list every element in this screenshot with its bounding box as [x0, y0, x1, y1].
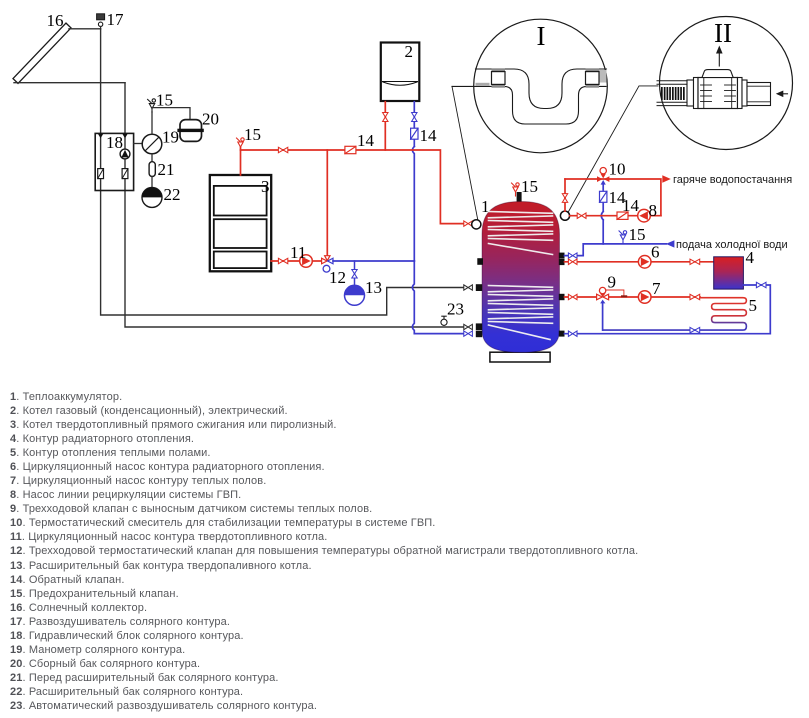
svg-text:17: 17 — [107, 10, 125, 29]
wire blue down along x414 with hops — [412, 261, 463, 334]
mixer up arrow — [716, 46, 723, 67]
svg-text:II: II — [714, 18, 732, 48]
union nut left — [492, 68, 506, 87]
radiator 4 — [714, 257, 744, 289]
wire solar hot down pipe — [101, 29, 464, 315]
tank left solar supply stub — [476, 284, 482, 291]
mixer right nut — [742, 80, 747, 106]
pre expansion vessel 21 — [149, 162, 155, 177]
valve on tank13 stem — [352, 270, 357, 279]
wire red main to tank — [241, 150, 464, 224]
gas boiler 2 — [381, 43, 420, 102]
tank left blue stub — [476, 331, 482, 338]
mixer body cap — [702, 70, 733, 78]
wire hot riser from tank right port — [564, 179, 566, 211]
wire manometer down — [151, 154, 153, 162]
heat-trap pipe inner wall — [476, 69, 607, 109]
air vent 17 — [97, 14, 105, 29]
svg-text:18: 18 — [106, 133, 123, 152]
wire valve9 down to floor return — [602, 303, 604, 330]
svg-text:16: 16 — [47, 11, 64, 30]
svg-text:14: 14 — [420, 126, 438, 145]
svg-text:8: 8 — [649, 201, 658, 220]
buffer tank base — [490, 352, 550, 362]
mixer right pipe — [747, 83, 771, 106]
wire vessel to expansion tank — [151, 177, 153, 188]
tank lower coil — [489, 286, 553, 340]
wire collector bottom to return riser — [14, 82, 125, 84]
svg-text:13: 13 — [365, 278, 382, 297]
hydraulic block 18 — [95, 133, 133, 190]
svg-text:6: 6 — [651, 243, 660, 262]
wire hot supply line — [565, 179, 661, 216]
svg-text:15: 15 — [629, 225, 646, 244]
wire recirculation line — [570, 215, 661, 217]
valve 9 sensor capillary — [606, 290, 624, 296]
tank right heating supply stub — [559, 259, 565, 265]
thermostatic mixer 10 — [597, 168, 609, 185]
solar expansion tank 22 — [142, 187, 162, 207]
block inlet tick left — [98, 134, 103, 138]
floor heating serpentine 5 — [603, 298, 746, 330]
tank right port circle — [560, 211, 569, 220]
svg-text:15: 15 — [156, 91, 173, 110]
wire boiler3 riser — [240, 147, 242, 175]
detail circle II (thermostatic mixer section) — [660, 17, 793, 150]
leader line from detail II to tank right port — [568, 86, 658, 213]
wire radiator return — [565, 285, 771, 334]
valve on recirculation line — [577, 213, 586, 218]
hot supply arrowhead — [662, 175, 671, 182]
wire blue boiler loop return — [333, 260, 414, 262]
valve at tank blue bottom-left port — [464, 331, 473, 336]
wire safety valve to collecting tank — [152, 108, 190, 119]
svg-text:3: 3 — [261, 177, 270, 196]
mixer body internal hatch — [701, 78, 736, 109]
valve at tank return port — [568, 331, 577, 336]
wire boiler2 return crossing hop and down — [412, 146, 414, 261]
wire manometer up — [151, 112, 153, 134]
valve on floor return — [690, 327, 700, 332]
valve on boiler2 return — [412, 113, 417, 122]
svg-text:5: 5 — [749, 296, 758, 315]
valve on floor supply — [690, 294, 700, 299]
svg-text:21: 21 — [158, 160, 175, 179]
three-way valve 12 — [322, 256, 333, 272]
collecting tank 20 — [177, 120, 203, 142]
mixer union nut — [687, 80, 694, 106]
wire boiler2 return (blue) upper — [413, 102, 415, 147]
wire boiler3 bottom to pump 11 — [271, 260, 299, 262]
mixer thread hatching — [661, 87, 685, 100]
mixer body — [698, 78, 738, 109]
safety valve 15 (solar) — [148, 99, 156, 112]
safety valve 15 (cold line) — [619, 231, 627, 244]
svg-text:4: 4 — [746, 248, 755, 267]
tank top stub — [517, 192, 522, 202]
svg-text:7: 7 — [652, 279, 661, 298]
tank right cold stub — [559, 253, 565, 259]
valve on boiler2 supply — [383, 113, 388, 122]
valve on radiator return — [756, 282, 766, 287]
safety valve 15 (boiler3) — [237, 138, 245, 151]
tank upper coil — [489, 212, 553, 255]
check valve 14 below mixer — [600, 191, 607, 202]
valve on hot riser — [562, 194, 567, 203]
wire cold water supply — [565, 244, 667, 256]
floor pump 7 — [638, 291, 651, 304]
svg-text:1: 1 — [481, 197, 490, 216]
check valve 14 on red main — [345, 146, 356, 153]
svg-text:15: 15 — [521, 177, 538, 196]
valve at tank solar supply port — [464, 285, 473, 290]
valve on radiator supply — [690, 259, 700, 264]
check valve 14 on recirculation — [617, 212, 628, 219]
wire boiler2 supply (red) — [384, 102, 386, 150]
solid fuel boiler 3 — [210, 175, 271, 271]
valve on pump11 line — [278, 258, 287, 263]
svg-text:19: 19 — [162, 128, 179, 147]
heat-trap pipe outer wall — [452, 86, 606, 124]
svg-text:23: 23 — [447, 300, 464, 319]
mixer inflow arrow — [776, 91, 788, 98]
tank left stub (unused) — [477, 258, 483, 265]
wire radiator supply — [565, 261, 714, 263]
svg-text:I: I — [537, 21, 546, 51]
valve at tank cold port — [568, 253, 577, 258]
valve at tank solar return port — [464, 324, 473, 329]
wire pump11 to mixing valve 12 — [312, 260, 322, 262]
tank left port circle — [472, 220, 481, 229]
valve at tank left port — [464, 221, 473, 226]
cold supply arrowhead — [666, 240, 675, 247]
mixer right flange — [738, 78, 743, 109]
safety valve 15 (tank top) — [512, 183, 520, 196]
manometer 19 — [142, 134, 162, 154]
wire solar return down pipe — [125, 83, 464, 327]
sensor pocket tick — [622, 295, 626, 297]
solar pump (in block 18) — [120, 149, 130, 159]
block check valve right — [122, 169, 128, 179]
valve at tank heating port — [568, 259, 577, 264]
svg-text:гаряче водопостачання: гаряче водопостачання — [673, 174, 792, 186]
wire expansion tank 13 stem — [354, 261, 356, 286]
svg-text:10: 10 — [609, 160, 626, 179]
block inlet tick right — [122, 134, 127, 138]
detail circle I (heat trap) — [474, 19, 608, 153]
pump 11 — [300, 255, 313, 268]
recirculation pump 8 — [638, 209, 651, 222]
leader line from detail I to tank left port — [452, 86, 478, 221]
tank right floor supply stub — [559, 294, 565, 300]
buffer tank 1 body — [482, 202, 560, 353]
tank left solar return stub — [476, 323, 482, 330]
mixer left flange — [694, 78, 699, 109]
tank right return stub — [559, 331, 565, 337]
wire mixer cold feed down — [601, 184, 603, 244]
solar collector 16 — [13, 23, 71, 83]
valve on red main — [278, 147, 287, 152]
svg-text:11: 11 — [290, 243, 306, 262]
heat-trap pipe shading right — [599, 70, 607, 83]
svg-text:15: 15 — [244, 125, 261, 144]
svg-text:подача холодної води: подача холодної води — [676, 239, 788, 251]
wire red branch down from main — [326, 150, 328, 256]
svg-text:2: 2 — [405, 42, 414, 61]
svg-text:12: 12 — [329, 268, 346, 287]
svg-text:20: 20 — [202, 110, 219, 129]
svg-text:14: 14 — [357, 131, 375, 150]
check valve 14 on boiler2 return — [411, 128, 418, 139]
svg-text:14: 14 — [622, 196, 640, 215]
three-way valve 9 — [597, 287, 609, 303]
wire floor supply from tank — [565, 296, 701, 298]
radiator pump 6 — [638, 255, 651, 268]
air vent 23 — [441, 316, 447, 325]
block check valve left — [98, 169, 104, 179]
heat-trap pipe shading left — [476, 83, 490, 86]
wire block to manometer — [134, 143, 143, 145]
svg-text:22: 22 — [164, 185, 181, 204]
svg-text:9: 9 — [608, 273, 617, 292]
mixer left threaded pipe — [657, 81, 687, 106]
valve at tank floor port — [568, 294, 577, 299]
wire collector top to air vent riser — [69, 28, 101, 30]
union nut right — [586, 68, 600, 87]
expansion tank 13 — [345, 285, 365, 305]
